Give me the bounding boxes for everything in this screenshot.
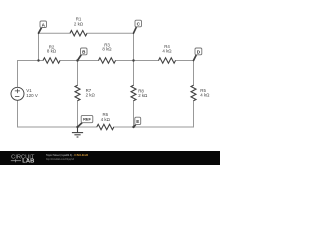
svg-text:http://circuitlab.com/c/4pqzv6: http://circuitlab.com/c/4pqzv6 xyxy=(46,157,74,161)
svg-text:2 kΩ: 2 kΩ xyxy=(86,93,96,98)
svg-text:LAB: LAB xyxy=(22,159,34,165)
svg-text:2 kΩ: 2 kΩ xyxy=(74,22,84,27)
svg-text:REF: REF xyxy=(83,117,91,122)
svg-text:8 kΩ: 8 kΩ xyxy=(102,47,112,52)
svg-text:4 kΩ: 4 kΩ xyxy=(162,48,172,53)
svg-text:2 kΩ: 2 kΩ xyxy=(138,93,148,98)
svg-text:4 kΩ: 4 kΩ xyxy=(101,117,111,122)
svg-text:CS3-Ex8: CS3-Ex8 xyxy=(74,153,88,157)
svg-text:4 kΩ: 4 kΩ xyxy=(200,93,210,98)
svg-text:120 V: 120 V xyxy=(26,93,38,98)
svg-text:E: E xyxy=(136,119,139,124)
svg-text:8 kΩ: 8 kΩ xyxy=(47,49,57,54)
